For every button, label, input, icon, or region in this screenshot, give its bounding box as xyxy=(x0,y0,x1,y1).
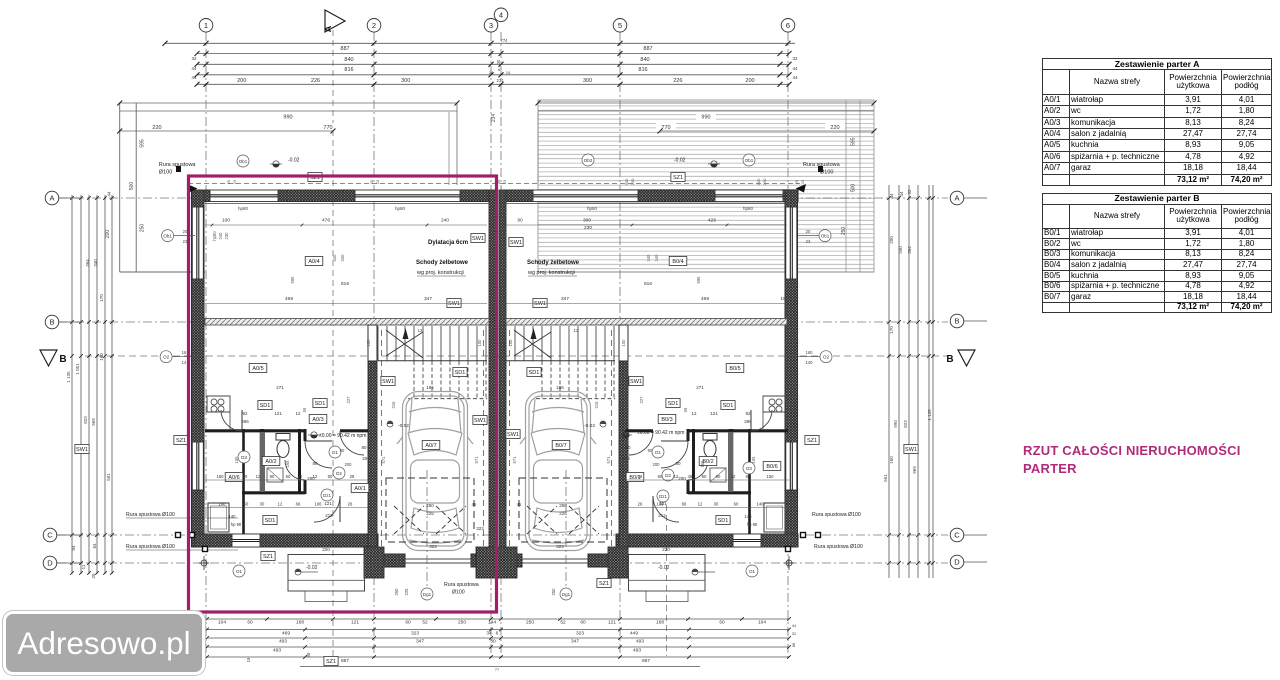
svg-text:347: 347 xyxy=(424,296,432,302)
svg-text:449: 449 xyxy=(630,630,638,636)
svg-text:hp 90: hp 90 xyxy=(747,522,758,527)
svg-text:5: 5 xyxy=(618,21,622,30)
svg-text:60: 60 xyxy=(286,474,291,479)
svg-text:595: 595 xyxy=(140,139,146,148)
svg-text:Ø100: Ø100 xyxy=(452,590,465,596)
svg-text:SZ1: SZ1 xyxy=(673,175,683,181)
svg-text:44: 44 xyxy=(889,193,894,199)
svg-text:340: 340 xyxy=(340,254,345,262)
svg-text:3: 3 xyxy=(489,21,493,30)
svg-text:23: 23 xyxy=(375,179,380,184)
svg-text:44: 44 xyxy=(792,66,798,71)
svg-text:Ob1: Ob1 xyxy=(821,233,830,238)
svg-text:286: 286 xyxy=(241,419,249,424)
svg-text:160: 160 xyxy=(99,353,104,361)
svg-text:105: 105 xyxy=(751,456,756,464)
svg-text:823: 823 xyxy=(903,420,908,428)
svg-text:-0.02: -0.02 xyxy=(674,158,686,164)
svg-text:186: 186 xyxy=(426,385,434,390)
svg-text:160: 160 xyxy=(806,350,814,355)
svg-text:Ob1: Ob1 xyxy=(163,233,172,238)
svg-text:140: 140 xyxy=(757,502,765,507)
svg-text:969: 969 xyxy=(91,418,96,426)
svg-text:28: 28 xyxy=(638,474,643,479)
svg-text:1 051: 1 051 xyxy=(75,363,80,375)
svg-text:-0.02: -0.02 xyxy=(288,158,300,164)
svg-text:340: 340 xyxy=(654,254,659,262)
svg-text:A0/4: A0/4 xyxy=(308,259,319,265)
svg-text:140: 140 xyxy=(806,360,814,365)
svg-text:Dz1: Dz1 xyxy=(659,494,667,499)
svg-text:Schody żelbetowe: Schody żelbetowe xyxy=(416,260,469,266)
svg-text:SW1: SW1 xyxy=(448,301,460,307)
svg-text:323: 323 xyxy=(576,630,584,636)
svg-text:SZ1: SZ1 xyxy=(176,438,186,444)
svg-text:200: 200 xyxy=(622,456,630,461)
svg-text:66: 66 xyxy=(296,502,301,507)
svg-text:469: 469 xyxy=(282,630,290,636)
svg-text:168: 168 xyxy=(296,620,304,626)
svg-text:220: 220 xyxy=(152,125,161,131)
svg-text:84: 84 xyxy=(92,543,97,549)
svg-text:Dylatacja 6cm: Dylatacja 6cm xyxy=(428,240,468,246)
svg-text:Dz1: Dz1 xyxy=(323,493,331,498)
svg-text:52: 52 xyxy=(560,620,566,626)
svg-text:46: 46 xyxy=(688,474,693,479)
svg-text:-0.02: -0.02 xyxy=(584,423,595,429)
svg-text:80: 80 xyxy=(312,461,318,466)
svg-text:595: 595 xyxy=(851,137,857,146)
svg-text:250: 250 xyxy=(426,503,434,508)
svg-text:SZ1: SZ1 xyxy=(326,659,336,665)
svg-text:340: 340 xyxy=(646,254,651,262)
svg-text:1 135: 1 135 xyxy=(927,409,932,421)
svg-text:Rura spustowa: Rura spustowa xyxy=(159,162,197,168)
svg-text:571: 571 xyxy=(512,456,517,464)
svg-text:C: C xyxy=(954,531,960,540)
svg-text:990: 990 xyxy=(283,115,292,121)
svg-text:SD1: SD1 xyxy=(455,370,466,376)
svg-text:887: 887 xyxy=(643,46,652,52)
svg-text:60: 60 xyxy=(243,474,248,479)
svg-text:60: 60 xyxy=(247,620,253,626)
svg-text:80: 80 xyxy=(361,445,367,450)
svg-text:364: 364 xyxy=(85,259,90,267)
svg-text:SW1: SW1 xyxy=(382,379,394,385)
svg-text:Ob2: Ob2 xyxy=(584,158,593,163)
svg-text:23: 23 xyxy=(502,179,507,184)
svg-text:250: 250 xyxy=(526,620,534,626)
svg-text:23: 23 xyxy=(806,239,811,244)
svg-text:O2: O2 xyxy=(163,355,170,360)
svg-text:SZ1: SZ1 xyxy=(807,438,817,444)
svg-text:230: 230 xyxy=(630,178,635,185)
svg-text:990: 990 xyxy=(701,115,710,121)
svg-text:30: 30 xyxy=(369,179,374,184)
svg-text:200: 200 xyxy=(345,462,353,467)
svg-text:19: 19 xyxy=(780,296,786,302)
svg-text:23: 23 xyxy=(800,179,805,184)
svg-text:32: 32 xyxy=(792,631,797,636)
svg-text:323: 323 xyxy=(429,544,437,549)
svg-text:B0/7: B0/7 xyxy=(555,443,566,449)
svg-text:227: 227 xyxy=(346,396,351,404)
svg-text:212: 212 xyxy=(658,513,666,518)
svg-text:476: 476 xyxy=(322,218,330,224)
svg-text:B: B xyxy=(946,354,953,365)
svg-text:44: 44 xyxy=(106,191,111,197)
svg-text:60: 60 xyxy=(734,502,739,507)
svg-text:770: 770 xyxy=(323,125,332,131)
svg-text:Dg1: Dg1 xyxy=(423,592,432,597)
svg-text:SW1: SW1 xyxy=(472,236,484,242)
svg-text:200: 200 xyxy=(889,236,894,244)
svg-text:B0/3: B0/3 xyxy=(661,417,672,423)
svg-text:300: 300 xyxy=(583,78,592,84)
svg-text:-0.02: -0.02 xyxy=(306,565,318,571)
svg-text:A0/1: A0/1 xyxy=(354,486,365,492)
svg-text:23: 23 xyxy=(232,179,237,184)
svg-text:SD1: SD1 xyxy=(315,401,326,407)
svg-text:88: 88 xyxy=(791,642,796,647)
svg-text:493: 493 xyxy=(633,648,641,654)
svg-text:271: 271 xyxy=(696,385,704,390)
svg-text:B: B xyxy=(954,317,959,326)
svg-text:60: 60 xyxy=(746,474,751,479)
svg-text:225: 225 xyxy=(559,511,567,516)
svg-text:200: 200 xyxy=(653,462,661,467)
svg-text:SW1: SW1 xyxy=(905,447,917,453)
svg-text:816: 816 xyxy=(638,67,647,73)
svg-text:226: 226 xyxy=(673,78,682,84)
svg-text:24: 24 xyxy=(506,70,511,75)
svg-text:59: 59 xyxy=(683,407,688,412)
svg-text:286: 286 xyxy=(744,419,752,424)
svg-text:34: 34 xyxy=(486,630,492,636)
svg-text:500: 500 xyxy=(129,182,135,191)
svg-text:225: 225 xyxy=(404,588,409,596)
svg-text:±0.00 = 90.42 m npm: ±0.00 = 90.42 m npm xyxy=(319,433,366,439)
svg-text:O2: O2 xyxy=(823,355,830,360)
svg-text:469: 469 xyxy=(285,296,293,302)
svg-text:20: 20 xyxy=(91,573,96,579)
svg-text:-0.02: -0.02 xyxy=(398,423,409,429)
svg-text:104: 104 xyxy=(758,620,766,626)
svg-text:887: 887 xyxy=(340,46,349,52)
svg-text:106: 106 xyxy=(315,502,323,507)
svg-text:Rura spustowa Ø100: Rura spustowa Ø100 xyxy=(126,512,175,518)
svg-text:887: 887 xyxy=(642,658,650,664)
svg-text:44: 44 xyxy=(899,191,904,197)
svg-text:12: 12 xyxy=(698,502,703,507)
svg-text:561: 561 xyxy=(106,473,111,481)
svg-text:12: 12 xyxy=(731,474,736,479)
svg-text:212: 212 xyxy=(325,513,333,518)
svg-text:271: 271 xyxy=(276,385,284,390)
svg-text:250: 250 xyxy=(140,224,146,233)
svg-text:12: 12 xyxy=(574,328,579,333)
svg-text:225: 225 xyxy=(426,511,434,516)
svg-text:hp80: hp80 xyxy=(587,206,598,211)
svg-text:2: 2 xyxy=(372,21,376,30)
svg-text:44: 44 xyxy=(792,623,797,628)
svg-text:121: 121 xyxy=(608,620,616,626)
svg-text:60: 60 xyxy=(244,502,249,507)
svg-text:SD1: SD1 xyxy=(529,370,540,376)
svg-text:100: 100 xyxy=(477,339,482,347)
svg-text:300: 300 xyxy=(401,78,410,84)
svg-text:200: 200 xyxy=(237,78,246,84)
svg-text:347: 347 xyxy=(561,296,569,302)
svg-text:6: 6 xyxy=(786,21,790,30)
svg-text:140: 140 xyxy=(745,514,753,519)
svg-text:C: C xyxy=(47,531,53,540)
svg-text:165: 165 xyxy=(700,460,705,468)
svg-text:32: 32 xyxy=(907,189,912,195)
svg-text:340: 340 xyxy=(332,254,337,262)
svg-text:12: 12 xyxy=(418,328,423,333)
svg-text:30: 30 xyxy=(490,639,496,645)
svg-text:SW1: SW1 xyxy=(630,379,642,385)
svg-text:Ob1: Ob1 xyxy=(745,158,754,163)
svg-text:426: 426 xyxy=(708,218,716,224)
svg-text:250: 250 xyxy=(559,503,567,508)
svg-text:A: A xyxy=(323,25,333,32)
svg-text:144: 144 xyxy=(488,620,496,626)
svg-text:Schody żelbetowe: Schody żelbetowe xyxy=(527,260,580,266)
svg-text:SW1: SW1 xyxy=(474,418,486,424)
svg-text:493: 493 xyxy=(279,639,287,645)
svg-text:165: 165 xyxy=(285,460,290,468)
svg-text:19: 19 xyxy=(246,657,251,662)
svg-text:160: 160 xyxy=(889,456,894,464)
svg-text:90: 90 xyxy=(517,218,523,224)
svg-text:84: 84 xyxy=(71,545,76,551)
svg-text:B: B xyxy=(59,354,66,365)
svg-text:121: 121 xyxy=(324,501,332,506)
svg-text:30: 30 xyxy=(496,59,501,64)
svg-text:90: 90 xyxy=(270,474,275,479)
svg-text:500: 500 xyxy=(851,184,857,193)
svg-text:60: 60 xyxy=(328,474,333,479)
svg-text:Ø100: Ø100 xyxy=(159,170,172,176)
svg-text:595: 595 xyxy=(290,276,295,284)
svg-text:D1: D1 xyxy=(332,450,338,455)
svg-text:28: 28 xyxy=(350,474,355,479)
svg-text:B0/4: B0/4 xyxy=(672,259,683,265)
svg-text:227: 227 xyxy=(639,396,644,404)
svg-text:A0/5: A0/5 xyxy=(252,366,263,372)
svg-text:80: 80 xyxy=(675,461,681,466)
svg-text:770: 770 xyxy=(661,125,670,131)
svg-text:121: 121 xyxy=(274,411,282,416)
svg-text:200: 200 xyxy=(745,78,754,84)
svg-text:200: 200 xyxy=(105,230,111,239)
svg-text:44: 44 xyxy=(792,75,798,80)
svg-text:6: 6 xyxy=(498,67,501,72)
svg-text:240: 240 xyxy=(441,218,449,224)
svg-text:200: 200 xyxy=(678,476,686,481)
svg-text:121: 121 xyxy=(659,501,667,506)
svg-text:840: 840 xyxy=(640,57,649,63)
svg-text:12: 12 xyxy=(278,502,283,507)
svg-text:170: 170 xyxy=(889,326,894,334)
svg-text:SW1: SW1 xyxy=(534,301,546,307)
svg-text:220: 220 xyxy=(322,547,330,552)
svg-text:92: 92 xyxy=(242,411,248,416)
svg-text:887: 887 xyxy=(341,658,349,664)
svg-text:200: 200 xyxy=(307,476,315,481)
svg-text:59: 59 xyxy=(302,407,307,412)
svg-text:Ob1: Ob1 xyxy=(239,159,248,164)
svg-text:323: 323 xyxy=(411,630,419,636)
svg-text:150: 150 xyxy=(767,474,775,479)
svg-text:220: 220 xyxy=(830,125,839,131)
svg-text:32: 32 xyxy=(792,56,798,61)
svg-text:816: 816 xyxy=(341,281,349,287)
svg-text:240: 240 xyxy=(218,232,223,240)
svg-text:SD1: SD1 xyxy=(668,401,679,407)
svg-text:493: 493 xyxy=(273,648,281,654)
svg-text:250: 250 xyxy=(551,588,556,596)
svg-text:Rura spustowa Ø100: Rura spustowa Ø100 xyxy=(126,544,175,550)
svg-text:816: 816 xyxy=(344,67,353,73)
svg-text:66: 66 xyxy=(682,502,687,507)
svg-text:100: 100 xyxy=(366,339,371,347)
svg-text:A: A xyxy=(954,194,959,203)
svg-text:26: 26 xyxy=(348,502,353,507)
svg-text:20: 20 xyxy=(794,179,799,184)
svg-text:469: 469 xyxy=(701,296,709,302)
svg-text:wg proj. konstrukcji: wg proj. konstrukcji xyxy=(527,270,575,276)
svg-text:D3: D3 xyxy=(241,455,247,460)
svg-text:D: D xyxy=(47,559,53,568)
svg-text:230: 230 xyxy=(584,225,592,231)
svg-text:250: 250 xyxy=(841,227,847,236)
svg-text:32: 32 xyxy=(191,56,197,61)
svg-text:323: 323 xyxy=(556,544,564,549)
svg-text:571: 571 xyxy=(474,456,479,464)
svg-text:990: 990 xyxy=(893,420,898,428)
svg-text:hp 90: hp 90 xyxy=(231,522,242,527)
svg-text:60: 60 xyxy=(702,474,707,479)
svg-text:234: 234 xyxy=(491,114,497,123)
svg-text:347: 347 xyxy=(416,639,424,645)
svg-text:80: 80 xyxy=(340,448,345,453)
svg-text:O1: O1 xyxy=(749,569,756,574)
svg-text:D: D xyxy=(954,558,960,567)
svg-text:168: 168 xyxy=(656,620,664,626)
svg-text:226: 226 xyxy=(311,78,320,84)
svg-text:840: 840 xyxy=(344,57,353,63)
svg-text:121: 121 xyxy=(351,620,359,626)
svg-text:26: 26 xyxy=(638,502,643,507)
svg-text:105: 105 xyxy=(234,456,239,464)
svg-text:571: 571 xyxy=(381,456,386,464)
svg-text:SD1: SD1 xyxy=(265,518,276,524)
svg-text:186: 186 xyxy=(556,385,564,390)
svg-text:121: 121 xyxy=(710,411,718,416)
svg-text:230: 230 xyxy=(224,232,229,240)
svg-text:20: 20 xyxy=(226,179,231,184)
svg-text:12: 12 xyxy=(691,411,697,416)
svg-text:O1: O1 xyxy=(236,569,243,574)
svg-text:80: 80 xyxy=(648,448,653,453)
svg-text:hp80: hp80 xyxy=(395,206,406,211)
svg-text:14: 14 xyxy=(182,360,187,365)
svg-text:Rura spustowa Ø100: Rura spustowa Ø100 xyxy=(814,544,863,550)
svg-text:hp80: hp80 xyxy=(238,206,249,211)
svg-text:Dg1: Dg1 xyxy=(562,592,571,597)
svg-text:SW1: SW1 xyxy=(76,447,88,453)
svg-text:A0/2: A0/2 xyxy=(265,459,276,465)
svg-text:77: 77 xyxy=(495,667,500,672)
svg-text:823: 823 xyxy=(83,416,88,424)
svg-text:44: 44 xyxy=(191,66,197,71)
svg-text:300: 300 xyxy=(624,178,629,185)
svg-text:250: 250 xyxy=(394,588,399,596)
svg-text:Ø100: Ø100 xyxy=(820,170,833,176)
svg-text:104: 104 xyxy=(218,620,226,626)
svg-text:-0.02: -0.02 xyxy=(658,565,670,571)
svg-text:60: 60 xyxy=(580,620,586,626)
svg-text:12: 12 xyxy=(256,474,261,479)
svg-text:SZ1: SZ1 xyxy=(599,581,609,587)
svg-text:595: 595 xyxy=(696,276,701,284)
svg-text:A0/7: A0/7 xyxy=(425,443,436,449)
svg-text:100: 100 xyxy=(621,339,626,347)
svg-text:16: 16 xyxy=(182,350,187,355)
svg-text:364: 364 xyxy=(907,246,912,254)
svg-text:969: 969 xyxy=(912,466,917,474)
svg-text:30: 30 xyxy=(714,502,719,507)
svg-text:60: 60 xyxy=(658,474,663,479)
svg-text:20: 20 xyxy=(806,229,811,234)
svg-text:30: 30 xyxy=(260,502,265,507)
svg-text:60: 60 xyxy=(719,620,725,626)
svg-text:1: 1 xyxy=(204,21,208,30)
svg-text:52: 52 xyxy=(422,620,428,626)
svg-text:D2: D2 xyxy=(665,473,671,478)
svg-text:140: 140 xyxy=(219,502,227,507)
svg-text:1 135: 1 135 xyxy=(66,371,71,383)
svg-text:SW1: SW1 xyxy=(510,240,522,246)
svg-text:100: 100 xyxy=(222,218,230,224)
svg-text:D1: D1 xyxy=(655,450,661,455)
svg-text:200: 200 xyxy=(756,178,761,185)
svg-text:215: 215 xyxy=(594,401,599,409)
svg-text:200: 200 xyxy=(362,456,370,461)
svg-text:Rura spustowa Ø100: Rura spustowa Ø100 xyxy=(812,512,861,518)
svg-text:A: A xyxy=(49,194,54,203)
svg-text:46: 46 xyxy=(298,474,303,479)
svg-text:340: 340 xyxy=(93,259,98,267)
svg-text:300: 300 xyxy=(583,218,591,224)
svg-text:150: 150 xyxy=(217,474,225,479)
svg-text:11: 11 xyxy=(81,564,86,569)
svg-text:220: 220 xyxy=(662,547,670,552)
svg-text:hp80: hp80 xyxy=(743,206,754,211)
svg-text:774: 774 xyxy=(501,38,509,43)
svg-text:wg proj. konstrukcji: wg proj. konstrukcji xyxy=(416,270,464,276)
svg-text:SD1: SD1 xyxy=(723,403,734,409)
svg-text:493: 493 xyxy=(636,639,644,645)
svg-text:88: 88 xyxy=(306,652,311,657)
svg-text:92: 92 xyxy=(745,411,751,416)
svg-text:B: B xyxy=(49,318,54,327)
svg-text:230: 230 xyxy=(762,178,767,185)
svg-text:6: 6 xyxy=(496,630,499,636)
